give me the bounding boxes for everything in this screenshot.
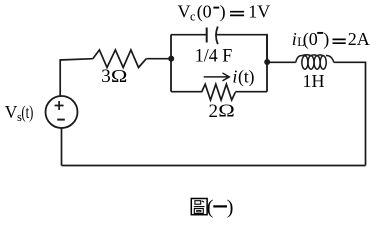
label Vc(0-)=1V xyxy=(178,2,271,24)
label iL(0-)=2A xyxy=(292,29,370,50)
voltage source VS xyxy=(46,96,78,128)
svg-text:i(t): i(t) xyxy=(232,67,254,88)
caption (one) xyxy=(207,197,234,219)
wire capacitor branch right xyxy=(216,35,268,62)
wire box right bar xyxy=(266,35,268,92)
svg-text:1/4 F: 1/4 F xyxy=(195,45,233,66)
wire node B to inductor xyxy=(267,61,296,63)
wire bottom branch right xyxy=(235,91,267,93)
wire bottom xyxy=(62,165,366,167)
node B xyxy=(264,59,270,65)
wire resistor to node A xyxy=(146,58,171,60)
label 2 ohm xyxy=(209,101,235,122)
label 1/4 F xyxy=(195,45,233,66)
svg-text:): ) xyxy=(227,197,234,219)
inductor L1 1H xyxy=(296,55,334,69)
label Vs(t) xyxy=(5,102,34,124)
wire bottom branch left xyxy=(171,91,202,93)
wire source bottom xyxy=(61,128,63,166)
label 3 ohm xyxy=(101,66,127,87)
wire inductor to right corner and down xyxy=(334,62,366,165)
svg-text:2: 2 xyxy=(209,101,219,122)
current arrow i(t) xyxy=(204,73,230,81)
node A xyxy=(168,56,174,62)
capacitor C1 1/4F xyxy=(207,27,218,45)
caption figure glyph xyxy=(191,199,207,215)
svg-text:Ω: Ω xyxy=(218,101,235,121)
svg-text:(: ( xyxy=(207,197,214,219)
wire box left bar xyxy=(170,35,172,92)
wire source top to resistor xyxy=(60,59,93,97)
svg-text:1H: 1H xyxy=(303,71,325,91)
label 1H xyxy=(303,71,325,91)
wire capacitor branch left xyxy=(171,34,206,36)
label i(t) xyxy=(232,67,254,88)
svg-text:Ω: Ω xyxy=(111,67,128,87)
resistor R2 2ohm xyxy=(202,84,236,100)
svg-text:3: 3 xyxy=(101,66,111,87)
resistor R1 3ohm xyxy=(93,50,147,68)
